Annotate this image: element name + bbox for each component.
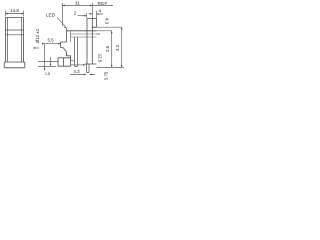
svg-text:12.5: 12.5 [98, 54, 103, 63]
svg-text:Ø12 ±1: Ø12 ±1 [35, 28, 40, 43]
svg-text:REF: REF [98, 1, 108, 6]
svg-text:31: 31 [75, 1, 80, 6]
svg-text:3.75: 3.75 [104, 71, 109, 80]
svg-text:2.5: 2.5 [105, 45, 110, 52]
svg-text:5.5: 5.5 [47, 37, 54, 42]
svg-text:LED: LED [46, 13, 56, 18]
svg-text:4.3: 4.3 [115, 44, 120, 51]
svg-text:1.5: 1.5 [45, 72, 50, 76]
svg-text:14.8: 14.8 [10, 8, 19, 13]
svg-text:4.3: 4.3 [73, 69, 80, 74]
svg-text:4.3: 4.3 [105, 18, 110, 25]
